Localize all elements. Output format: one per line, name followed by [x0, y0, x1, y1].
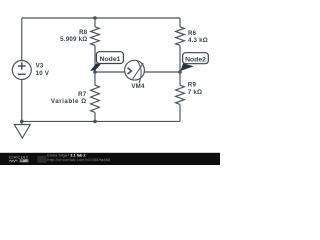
wire node1 junction to R7: [94, 72, 96, 85]
VM4 meter scale arc: [137, 61, 141, 83]
svg-text:4.3 kΩ: 4.3 kΩ: [188, 37, 208, 44]
svg-text:R8: R8: [79, 29, 88, 36]
footer avatar box: [38, 156, 47, 163]
footer logo LAB box: [19, 159, 28, 163]
wire R8 to node1 junction: [94, 45, 96, 72]
svg-text:R9: R9: [188, 82, 197, 89]
wire left rail upper: [21, 18, 23, 61]
node flag Node2: [180, 53, 208, 71]
junction dot bottom left: [20, 120, 24, 124]
wire node1 to voltmeter: [95, 71, 125, 73]
wire top rail: [22, 17, 180, 19]
junction dot bottom middle: [93, 120, 97, 124]
resistor R7: [91, 85, 100, 112]
junction dot node1: [93, 70, 97, 74]
svg-text:5.909 kΩ: 5.909 kΩ: [60, 36, 87, 43]
voltmeter VM4 circle: [125, 60, 145, 80]
svg-text:Variable Ω: Variable Ω: [51, 98, 87, 105]
svg-text:VM4: VM4: [131, 83, 145, 90]
junction dot node2: [178, 70, 182, 74]
svg-text:V3: V3: [36, 63, 44, 70]
wire R9 to bottom rail: [179, 105, 181, 122]
resistor R9: [176, 85, 185, 104]
resistor R8: [91, 27, 100, 46]
wire node2 junction to R9: [179, 72, 181, 85]
footer bar: [0, 153, 220, 165]
wire left rail lower: [21, 80, 23, 122]
wire middle column upper lead: [94, 18, 96, 27]
V3 plus sign: [18, 62, 26, 70]
voltage source V3 circle: [12, 61, 31, 80]
svg-text:LAB: LAB: [20, 159, 28, 163]
wire R6 to node2 junction: [179, 45, 181, 72]
svg-text:10 V: 10 V: [36, 70, 50, 77]
svg-text:7 kΩ: 7 kΩ: [188, 89, 202, 96]
wire right rail upper lead: [179, 18, 181, 27]
ground triangle: [14, 125, 30, 139]
wire R7 to bottom rail: [94, 112, 96, 121]
svg-text:Node2: Node2: [185, 56, 206, 63]
footer logo squiggle: [9, 160, 18, 162]
V3 minus sign: [18, 73, 26, 75]
svg-text:http://circuitlab.com/c/2058/f: http://circuitlab.com/c/2058/fa868: [47, 157, 110, 162]
VM4 V-glyph: [128, 68, 132, 74]
node flag Node1: [90, 52, 123, 71]
ground stub: [21, 121, 23, 124]
VM4 needle: [133, 63, 144, 79]
wire voltmeter to node2: [144, 71, 180, 73]
svg-text:R7: R7: [78, 91, 87, 98]
junction dot top middle: [93, 16, 97, 20]
resistor R6: [176, 27, 185, 46]
wire bottom rail: [22, 120, 180, 122]
svg-text:Node1: Node1: [100, 56, 121, 63]
